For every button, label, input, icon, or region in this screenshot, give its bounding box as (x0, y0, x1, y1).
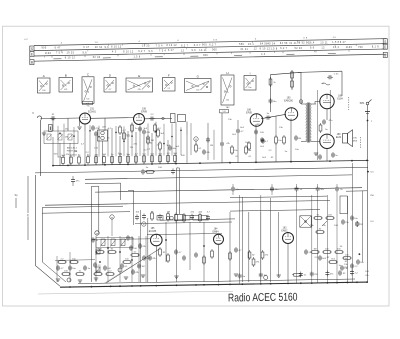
svg-text:10n: 10n (248, 87, 251, 89)
svg-text:64 58: 64 58 (280, 43, 288, 45)
svg-text:15,1: 15,1 (248, 44, 254, 46)
svg-text:6 47: 6 47 (83, 47, 89, 49)
svg-text:900: 900 (203, 55, 208, 57)
svg-text:15k: 15k (226, 100, 229, 102)
svg-text:S: S (384, 40, 386, 44)
svg-text:EABC: EABC (281, 229, 288, 232)
svg-text:C 5n: C 5n (334, 74, 339, 76)
svg-text:E: E (384, 45, 386, 49)
svg-text:B: B (31, 61, 33, 65)
svg-text:6,2 7: 6,2 7 (138, 51, 145, 53)
svg-text:7 5 4: 7 5 4 (159, 50, 166, 52)
svg-text:6 47: 6 47 (55, 48, 61, 50)
svg-text:2,2: 2,2 (167, 88, 170, 90)
svg-text:9,6: 9,6 (82, 52, 87, 54)
svg-text:7 5 4: 7 5 4 (156, 45, 163, 47)
svg-text:1,5 8: 1,5 8 (332, 42, 339, 44)
svg-text:1M: 1M (313, 248, 316, 250)
svg-text:31 41: 31 41 (289, 43, 297, 45)
svg-text:ECC85: ECC85 (149, 231, 157, 233)
svg-text:EL84: EL84 (336, 137, 342, 139)
svg-text:6,2 7: 6,2 7 (280, 48, 287, 50)
svg-text:A: A (43, 74, 45, 78)
svg-text:B: B (384, 53, 386, 57)
svg-text:8 10 12: 8 10 12 (260, 48, 271, 50)
svg-text:4,7: 4,7 (109, 89, 112, 91)
svg-text:EL84: EL84 (337, 99, 343, 101)
svg-text:13 11: 13 11 (199, 50, 207, 52)
svg-text:6,2 7: 6,2 7 (194, 45, 201, 47)
svg-text:EABC80: EABC80 (284, 99, 294, 102)
svg-text:3 8: 3 8 (303, 38, 308, 40)
svg-text:H: H (226, 71, 228, 75)
svg-text:V: V (32, 111, 34, 115)
svg-text:4 3: 4 3 (261, 54, 266, 56)
svg-text:AM 1,81,1: AM 1,81,1 (67, 147, 78, 150)
svg-text:F: F (27, 213, 29, 217)
svg-text:40 34: 40 34 (95, 47, 103, 49)
svg-text:8 10 12: 8 10 12 (65, 58, 76, 60)
svg-text:1100: 1100 (45, 53, 52, 55)
svg-text:19 25: 19 25 (142, 46, 150, 48)
svg-text:100: 100 (42, 90, 45, 92)
svg-text:6,2 7: 6,2 7 (209, 45, 216, 47)
svg-text:B: B (65, 73, 67, 77)
svg-text:ECH81: ECH81 (88, 111, 96, 114)
svg-text:14: 14 (95, 42, 99, 44)
svg-text:6,2 7: 6,2 7 (181, 45, 188, 47)
svg-text:9,6: 9,6 (191, 50, 196, 52)
svg-text:E: E (138, 74, 140, 78)
svg-text:12: 12 (181, 50, 185, 52)
svg-text:1M: 1M (151, 140, 154, 142)
svg-text:6 47: 6 47 (340, 42, 346, 44)
svg-text:1M: 1M (210, 145, 213, 147)
svg-text:EF89: EF89 (141, 110, 147, 113)
svg-text:Radio ACEC 5160: Radio ACEC 5160 (228, 292, 298, 305)
svg-text:7 5 4: 7 5 4 (56, 53, 63, 55)
svg-text:47k: 47k (64, 89, 67, 91)
svg-text:1,5 8: 1,5 8 (133, 56, 140, 58)
svg-text:900: 900 (41, 48, 46, 50)
svg-text:6 47: 6 47 (168, 50, 174, 52)
svg-text:1100: 1100 (346, 47, 353, 49)
svg-text:a S: a S (86, 103, 90, 105)
svg-text:13 11: 13 11 (320, 43, 328, 45)
svg-text:9,6: 9,6 (104, 47, 109, 49)
svg-text:19 25: 19 25 (67, 53, 75, 55)
svg-text:900: 900 (202, 45, 207, 47)
svg-text:8,1 9: 8,1 9 (372, 46, 379, 48)
svg-text:52 46: 52 46 (295, 48, 303, 50)
svg-text:10n: 10n (196, 89, 199, 91)
svg-text:M: M (111, 217, 113, 219)
svg-text:9,6: 9,6 (148, 51, 153, 53)
svg-text:9,6: 9,6 (310, 48, 315, 50)
svg-text:900: 900 (212, 50, 217, 52)
svg-text:52 46: 52 46 (93, 57, 101, 59)
svg-text:1M: 1M (167, 212, 170, 214)
svg-text:SH1: SH1 (360, 102, 365, 105)
svg-text:12: 12 (254, 49, 258, 51)
svg-text:12: 12 (321, 47, 325, 49)
svg-text:EF85: EF85 (246, 111, 252, 114)
svg-text:47k: 47k (138, 89, 141, 91)
svg-text:8 10 12: 8 10 12 (123, 51, 134, 53)
svg-text:1M: 1M (256, 124, 259, 126)
svg-text:F: F (168, 73, 170, 77)
svg-text:14: 14 (333, 37, 337, 39)
svg-text:1 S: 1 S (222, 111, 226, 113)
svg-text:4 3: 4 3 (112, 52, 117, 54)
svg-text:550: 550 (239, 44, 244, 46)
svg-text:E: E (31, 52, 33, 56)
svg-text:S: S (31, 47, 33, 51)
svg-text:700: 700 (358, 47, 363, 49)
svg-text:8 10 12: 8 10 12 (111, 47, 122, 49)
svg-text:1,5 8: 1,5 8 (270, 49, 277, 51)
svg-text:1M: 1M (141, 266, 144, 268)
svg-text:31 41: 31 41 (240, 49, 248, 51)
svg-text:16,4: 16,4 (308, 42, 314, 44)
svg-text:8 10 12: 8 10 12 (166, 45, 177, 47)
svg-text:10n: 10n (86, 98, 89, 100)
svg-text:40 34: 40 34 (268, 44, 276, 46)
svg-text:16,4: 16,4 (333, 47, 339, 49)
svg-text:3 8: 3 8 (213, 39, 218, 41)
